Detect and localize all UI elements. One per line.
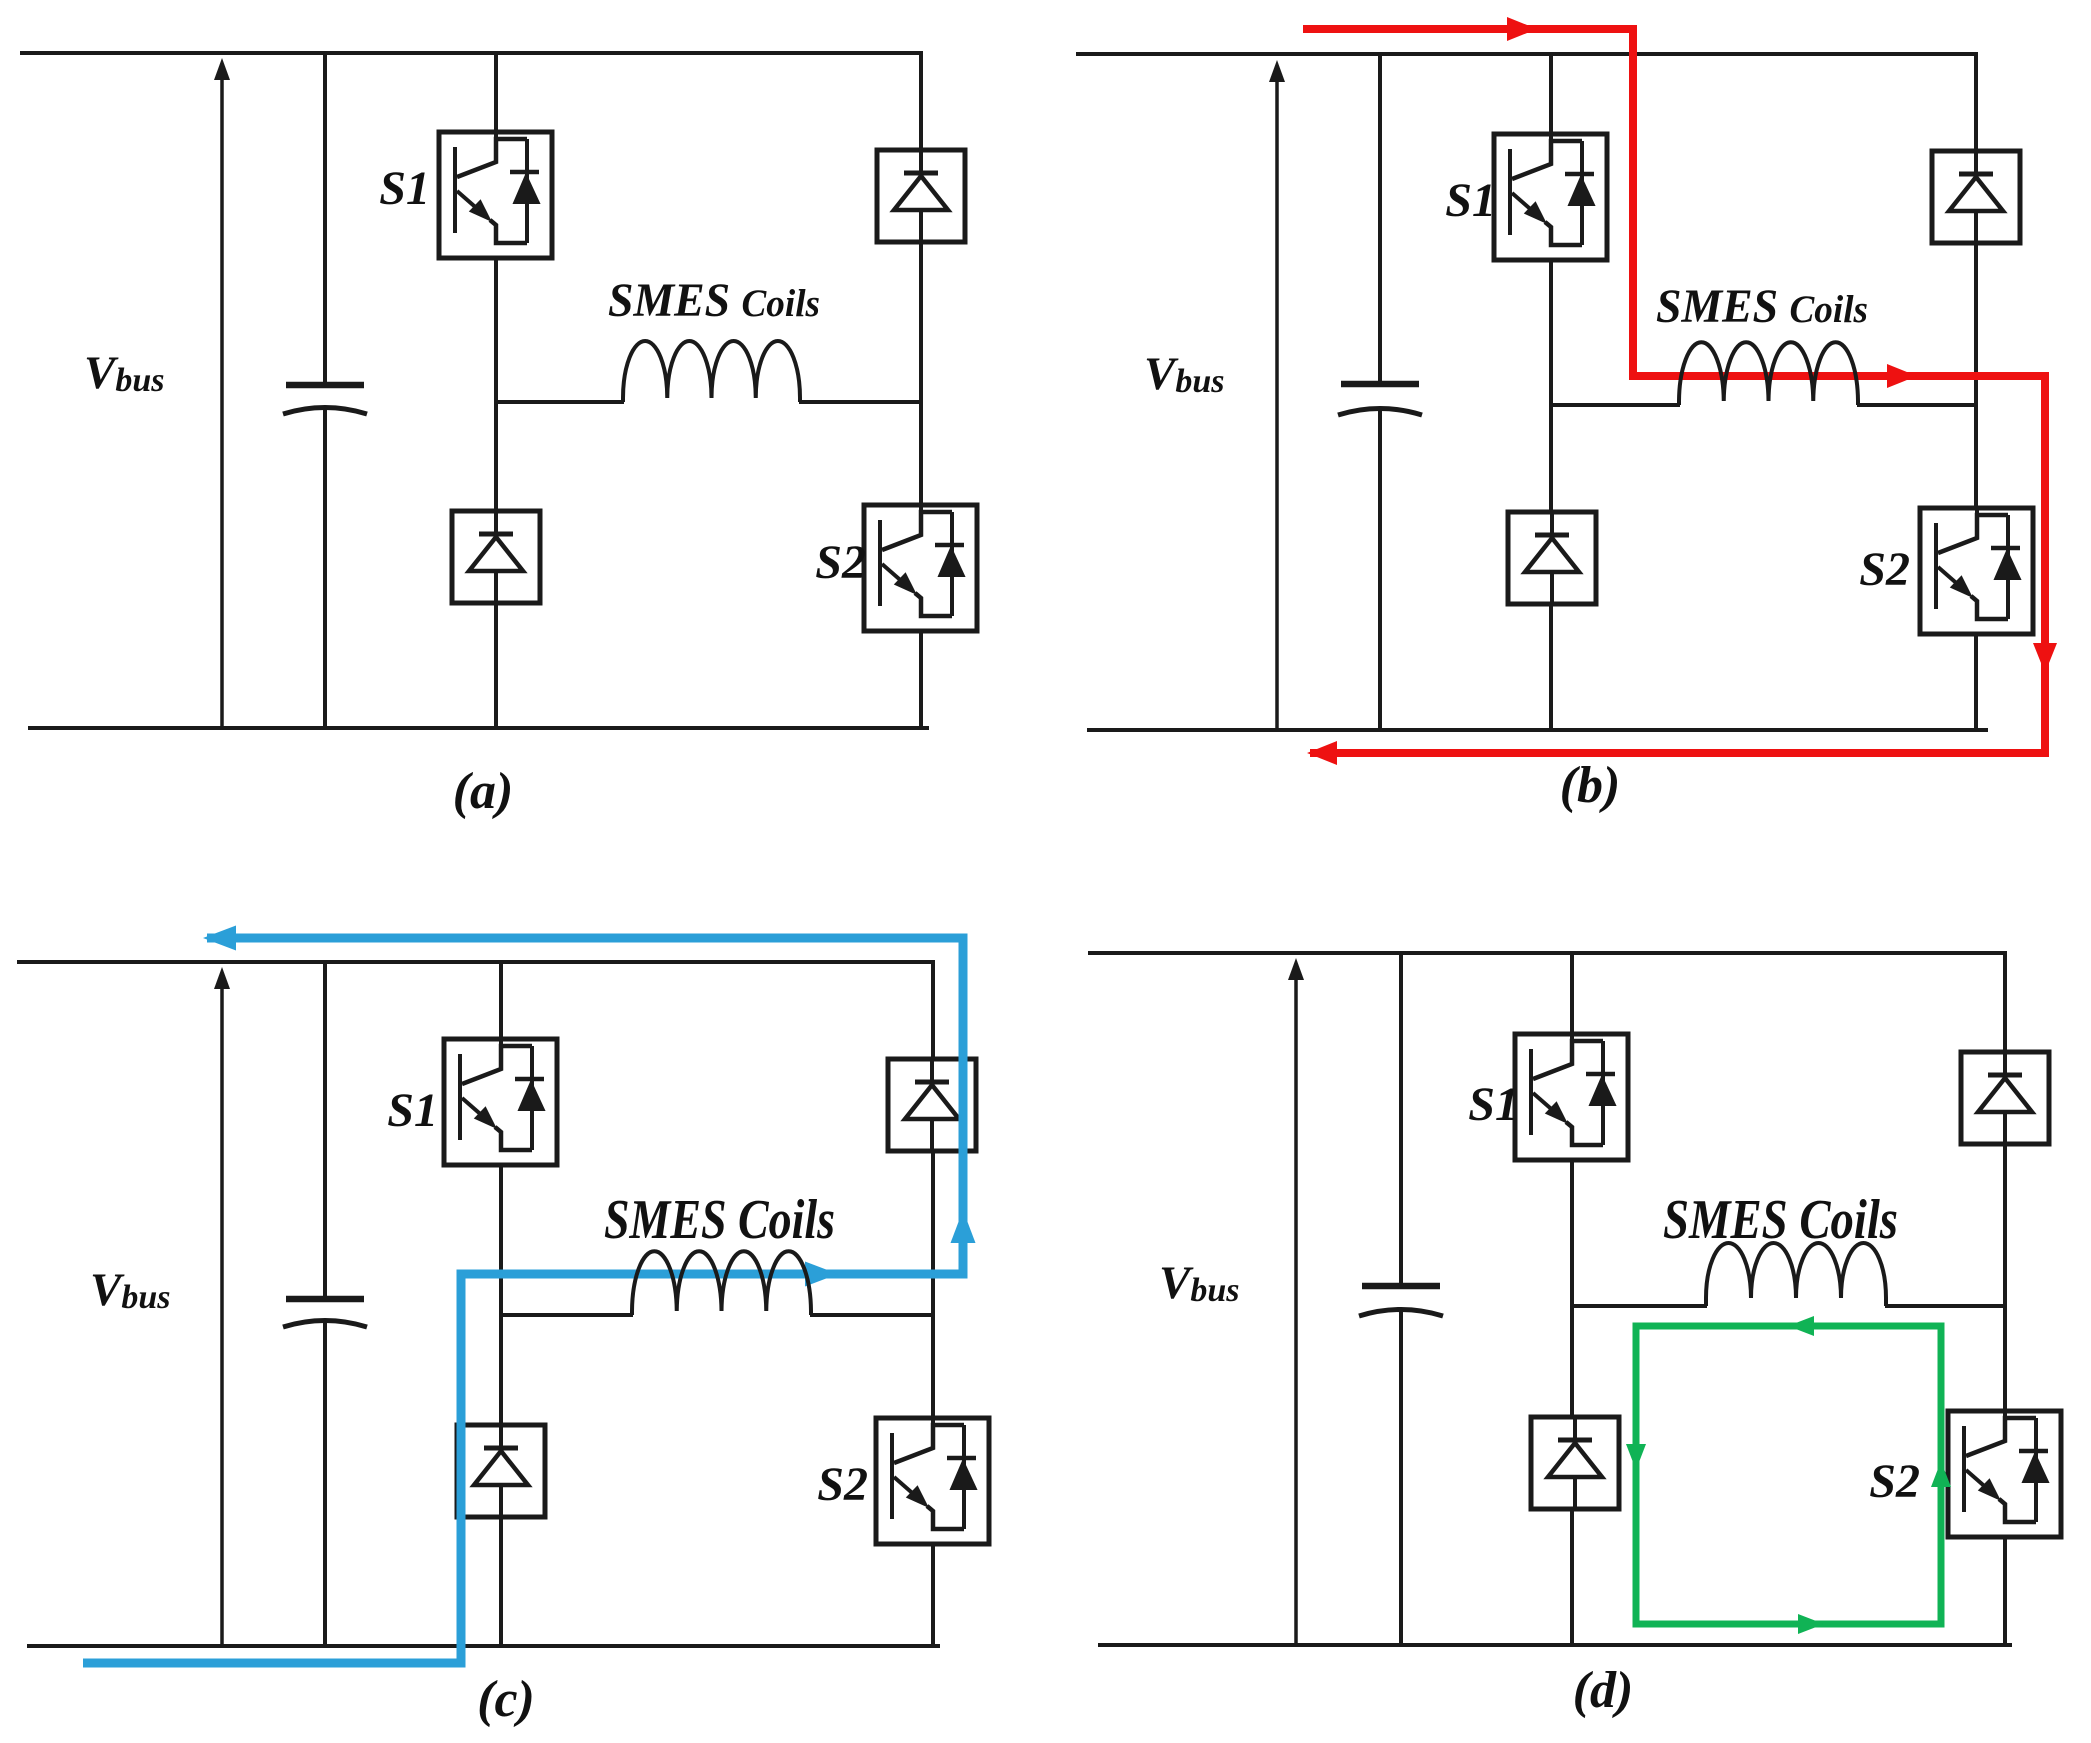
transistor S2 (IGBT module with antiparallel diode) xyxy=(1948,1411,2061,1537)
wire: SMES mid branch left (c) xyxy=(501,1313,633,1317)
diode D1 (upper right, d) xyxy=(1961,1052,2049,1144)
wire: S1 leg vertical (b) xyxy=(1549,52,1553,732)
wire: SMES mid branch right (b) xyxy=(1857,403,1976,407)
Vbus voltage arrow xyxy=(1294,976,1298,1643)
transistor S1 (IGBT module with antiparallel diode) xyxy=(444,1039,557,1165)
transistor S2 (IGBT module with antiparallel diode) xyxy=(864,505,977,631)
svg-text:SMES Coils: SMES Coils xyxy=(1663,1189,1898,1251)
svg-text:S1: S1 xyxy=(387,1084,438,1137)
svg-text:(b): (b) xyxy=(1560,757,1621,814)
diode D2 (lower left, c) xyxy=(457,1425,545,1517)
wire: SMES mid branch right (a) xyxy=(799,400,921,404)
capacitor (DC bus) xyxy=(1338,52,1422,732)
wire: top DC bus (c) xyxy=(17,960,934,964)
wire: top DC bus (d) xyxy=(1088,951,2005,955)
svg-text:SMES Coils: SMES Coils xyxy=(608,274,820,327)
diode D1 (upper right, c) xyxy=(888,1059,976,1151)
svg-text:S1: S1 xyxy=(379,162,430,215)
Vbus voltage arrow xyxy=(1275,78,1279,728)
wire: top DC bus (b) xyxy=(1076,52,1978,56)
wire: green freewheeling loop (d) xyxy=(1636,1326,1941,1624)
wire: bottom DC bus (c) xyxy=(27,1644,940,1648)
svg-text:S2: S2 xyxy=(1859,543,1910,596)
wire: red charging current path (b) xyxy=(1303,29,2045,753)
wire: blue discharging current path (c) xyxy=(83,938,963,1663)
diode D2 (lower left, d) xyxy=(1531,1417,1619,1509)
wire: right leg vertical (a) xyxy=(919,51,923,730)
transistor S1 (IGBT module with antiparallel diode) xyxy=(439,132,552,258)
wire: bottom DC bus (a) xyxy=(28,726,929,730)
wire: SMES mid branch right (c) xyxy=(810,1313,933,1317)
inductor L (SMES coil) xyxy=(623,341,800,402)
svg-text:S2: S2 xyxy=(817,1458,868,1511)
wire: top DC bus (a) xyxy=(20,51,923,55)
inductor L (SMES coil) xyxy=(632,1251,811,1315)
diode D1 (upper right, b) xyxy=(1932,151,2020,243)
wire: bottom DC bus (d) xyxy=(1098,1643,2012,1647)
svg-text:(c): (c) xyxy=(477,1671,535,1728)
diode D2 (lower left, a) xyxy=(452,511,540,603)
svg-text:S1: S1 xyxy=(1445,174,1496,227)
svg-text:SMES Coils: SMES Coils xyxy=(604,1189,835,1251)
wire: bottom DC bus (b) xyxy=(1087,728,1988,732)
transistor S1 (IGBT module with antiparallel diode) xyxy=(1494,134,1607,260)
transistor S2 (IGBT module with antiparallel diode) xyxy=(876,1418,989,1544)
inductor L (SMES coil) xyxy=(1679,342,1858,405)
svg-text:S2: S2 xyxy=(815,536,866,589)
wire: right leg vertical (b) xyxy=(1974,52,1978,732)
capacitor (DC bus) xyxy=(283,51,367,730)
svg-text:SMES Coils: SMES Coils xyxy=(1656,280,1868,333)
wire: SMES mid branch left (d) xyxy=(1572,1304,1707,1308)
diode D2 (lower left, b) xyxy=(1508,512,1596,604)
transistor S1 (IGBT module with antiparallel diode) xyxy=(1515,1034,1628,1160)
wire: S1 leg vertical (d) xyxy=(1570,951,1574,1647)
Vbus voltage arrow xyxy=(220,76,224,726)
wire: SMES mid branch left (b) xyxy=(1551,403,1680,407)
diode D1 (upper right, a) xyxy=(877,150,965,242)
wire: right leg vertical (c) xyxy=(931,960,935,1648)
svg-text:S1: S1 xyxy=(1468,1078,1519,1131)
svg-text:S2: S2 xyxy=(1869,1455,1920,1508)
capacitor (DC bus) xyxy=(1359,951,1443,1647)
wire: SMES mid branch right (d) xyxy=(1885,1304,2005,1308)
svg-text:(d): (d) xyxy=(1573,1662,1634,1719)
wire: S1 leg vertical (c) xyxy=(499,960,503,1648)
transistor S2 (IGBT module with antiparallel diode) xyxy=(1920,508,2033,634)
wire: S1 leg vertical (a) xyxy=(494,51,498,730)
wire: SMES mid branch left (a) xyxy=(496,400,624,404)
capacitor (DC bus) xyxy=(283,960,367,1648)
wire: right leg vertical (d) xyxy=(2003,951,2007,1647)
Vbus voltage arrow xyxy=(220,985,224,1644)
inductor L (SMES coil) xyxy=(1706,1243,1886,1306)
svg-text:(a): (a) xyxy=(453,763,514,820)
